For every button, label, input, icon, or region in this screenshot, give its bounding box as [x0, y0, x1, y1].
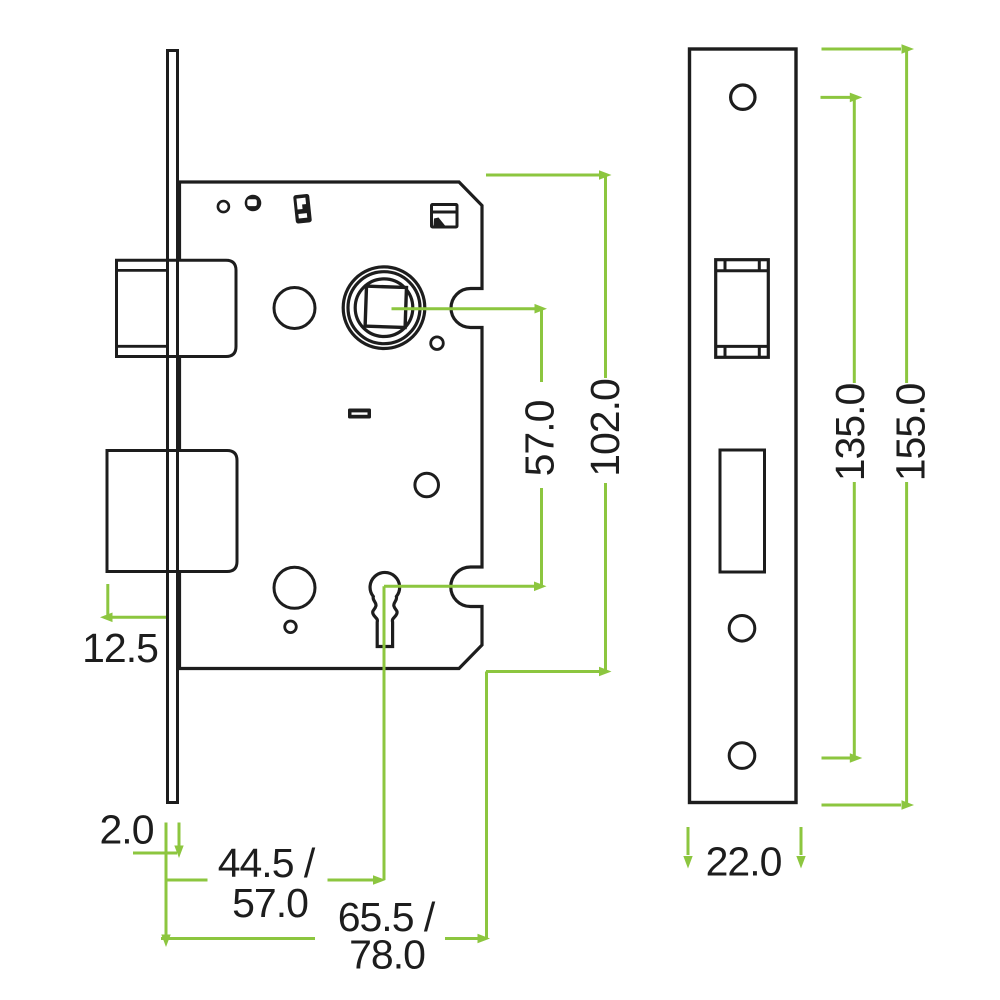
svg-text:12.5: 12.5	[82, 625, 158, 671]
dim 44.5/57.0 horizontal line	[166, 879, 374, 882]
lever/follower icon	[293, 194, 312, 224]
spindle follower middle ring	[348, 272, 420, 344]
dim 135.0 top leg	[821, 96, 851, 99]
top small hole	[218, 201, 229, 212]
middle hole	[415, 473, 439, 497]
spindle square hole	[365, 286, 406, 327]
slotted dash	[348, 409, 371, 419]
card icon (top right of body)	[432, 205, 458, 228]
arrow 57.0 top	[535, 304, 548, 314]
strike plate bottom screw hole	[729, 743, 755, 769]
arrow 22.0 right (down)	[796, 856, 805, 869]
dim 57.0 vertical line	[540, 309, 543, 587]
2.0 leader line	[133, 852, 177, 855]
dim 12.5 extension	[106, 584, 109, 617]
arrow 57.0 bottom	[534, 582, 547, 592]
arrow 102.0 bottom	[599, 667, 612, 677]
svg-text:22.0: 22.0	[706, 839, 782, 885]
svg-text:155.0: 155.0	[887, 384, 933, 482]
keyhole centre extension down	[383, 586, 386, 880]
dim 135.0 vertical line	[853, 97, 856, 758]
svg-text:135.0: 135.0	[827, 384, 873, 482]
lower small hole	[285, 621, 297, 633]
strike deadbolt cutout	[720, 450, 765, 572]
lower big hole	[274, 567, 315, 608]
dim 22.0 left arrow line	[687, 827, 690, 855]
strike plate outline	[690, 49, 797, 803]
faceplate right extension (2.0)	[178, 823, 181, 847]
small hole right of spindle	[431, 337, 444, 350]
svg-text:2.0: 2.0	[100, 807, 154, 853]
dim 135.0 bottom leg	[822, 757, 851, 760]
dim 57.0 bottom leg (from keyhole centre)	[384, 585, 542, 588]
dim 102.0 top leg	[486, 174, 606, 177]
arrow at left extension bottom	[161, 935, 170, 948]
svg-text:102.0: 102.0	[582, 379, 628, 477]
arrow 22.0 left (down)	[683, 856, 692, 869]
dim 65.5/78.0 horizontal line	[161, 937, 478, 940]
arrow 135.0 top	[850, 93, 863, 103]
svg-text:78.0: 78.0	[349, 932, 425, 978]
latch bolt bevel lines	[117, 270, 167, 346]
faceplate left extension line	[165, 823, 168, 938]
dim 65.5/78.0 vertical extension	[485, 672, 488, 939]
latch bolt (top, through faceplate)	[117, 260, 237, 356]
green arrowheads	[100, 44, 914, 947]
arrow 135.0 bottom	[850, 753, 863, 763]
arrow 12.5 (left)	[100, 613, 113, 623]
svg-text:57.0: 57.0	[517, 400, 563, 476]
spindle follower inner ring	[355, 279, 413, 337]
arrow 44.5/57.0	[373, 875, 386, 885]
dim 102.0 bottom leg	[486, 670, 606, 673]
arrow 65.5/78.0	[478, 934, 491, 944]
arrow 102.0 top	[599, 170, 612, 180]
dim 155.0 bottom leg	[822, 804, 902, 807]
dim 155.0 top leg	[822, 48, 902, 51]
faceplate (side view)	[168, 51, 178, 803]
dim 57.0 top leg (from spindle centre)	[392, 307, 542, 310]
lock body outline	[180, 182, 483, 669]
dim 22.0 right arrow line	[800, 827, 803, 855]
spindle follower outer ring	[343, 267, 425, 349]
dim 12.5 line	[104, 616, 166, 619]
svg-text:57.0: 57.0	[232, 880, 308, 926]
arrow 2.0 (down)	[174, 846, 183, 859]
dim 102.0 vertical line	[604, 175, 607, 672]
arrow 155.0 bottom	[902, 800, 915, 810]
strike plate top screw hole	[731, 85, 755, 109]
deadbolt (bottom, through faceplate)	[107, 451, 237, 572]
strike latch cutout	[716, 260, 769, 358]
dim 155.0 vertical line	[905, 49, 908, 805]
keyhole	[370, 572, 400, 646]
handle-side upper hole	[274, 288, 315, 329]
strike plate middle screw hole	[729, 616, 755, 642]
arrow 155.0 top	[902, 44, 915, 54]
screw head icon (dark circle with slot)	[245, 195, 262, 212]
